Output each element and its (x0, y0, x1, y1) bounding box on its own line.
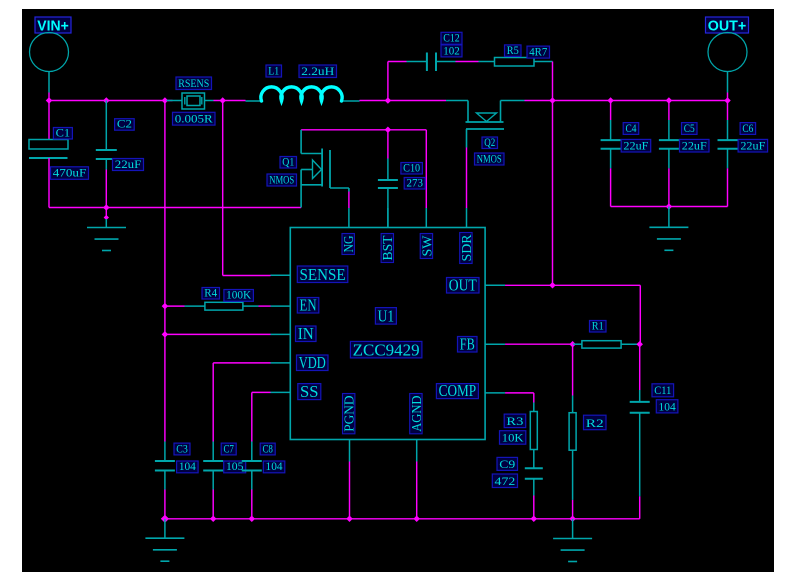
svg-text:22uF: 22uF (682, 138, 707, 152)
svg-text:C3: C3 (176, 441, 188, 455)
wire COMP pin row (505, 393, 534, 403)
ground GND1 (87, 219, 126, 251)
pin VDD (271, 353, 329, 372)
svg-text:L1: L1 (268, 63, 279, 77)
label Q1 (280, 154, 297, 168)
wire VIN feed down to R4/IN/C3 (164, 101, 166, 442)
svg-text:C7: C7 (223, 441, 234, 455)
label 104 C11 (656, 399, 678, 413)
wire snubber down to rail (552, 62, 554, 101)
wire VIN rail (49, 100, 173, 102)
capacitor C7 (203, 442, 223, 490)
svg-text:102: 102 (443, 43, 460, 57)
label 4R7 (527, 45, 550, 59)
label C9 (497, 457, 518, 471)
svg-text:470uF: 470uF (53, 166, 87, 180)
wire SS pin to C8 (252, 392, 271, 441)
wire input ground row (49, 207, 301, 209)
svg-text:NMOS: NMOS (477, 151, 502, 165)
node ground-rail C7 junction (210, 516, 217, 523)
label NMOS Q1 (267, 172, 297, 186)
label 104 C3 (177, 459, 199, 473)
svg-text:273: 273 (406, 175, 423, 189)
wire C8 to ground rail (251, 490, 253, 519)
svg-text:2.2uH: 2.2uH (301, 64, 334, 78)
label C7 (221, 441, 236, 455)
capacitor C10 (378, 130, 398, 228)
wire C7 to ground rail (212, 490, 214, 519)
svg-text:FB: FB (460, 334, 475, 353)
wire Q1 gate to NG pin (348, 192, 350, 209)
svg-text:R5: R5 (507, 43, 519, 57)
wire C12 to R5 (456, 61, 479, 63)
wire L1 to Q2 (SW rail) (360, 100, 447, 102)
wire FB pin to R1 (505, 343, 572, 345)
op-amp U1 ZCC9429 body (290, 228, 485, 440)
svg-text:105: 105 (226, 459, 244, 473)
label NMOS Q2 (475, 151, 505, 165)
svg-text:C6: C6 (742, 121, 753, 135)
label 22uF C4 (621, 138, 651, 152)
port OUT+ (706, 17, 749, 93)
svg-text:10K: 10K (502, 431, 524, 445)
wire rail down to OUT pin row (552, 101, 554, 286)
wire C3 to ground rail (164, 490, 166, 519)
svg-text:SS: SS (300, 382, 319, 401)
label R1 (590, 318, 607, 332)
capacitor C5 (659, 101, 679, 207)
capacitor C6 (718, 101, 738, 207)
label 273 (404, 175, 425, 189)
svg-text:IN: IN (298, 324, 314, 343)
node ground-rail C3 junction (161, 515, 169, 523)
wire to ground 1 (105, 208, 107, 220)
svg-text:C4: C4 (625, 121, 636, 135)
capacitor C9 (525, 468, 543, 495)
svg-text:NG: NG (342, 236, 357, 253)
label R2 (584, 415, 607, 430)
label C6 (740, 121, 756, 135)
pin SDR (460, 208, 475, 264)
svg-text:R4: R4 (204, 285, 217, 299)
svg-text:104: 104 (179, 459, 196, 473)
port VIN+ (30, 17, 72, 93)
label C12 (441, 31, 462, 45)
node ground-rail C9 junction (531, 516, 538, 523)
wire R2 to ground rail (572, 500, 574, 519)
label C4 (623, 121, 639, 135)
svg-text:U1: U1 (378, 307, 395, 326)
label ZCC9429 (350, 340, 422, 359)
svg-text:OUT: OUT (449, 275, 477, 294)
node IN junction (162, 331, 169, 338)
capacitor C11 (630, 390, 650, 496)
label C10 (401, 160, 423, 174)
label R3 (504, 414, 526, 428)
ground GND4 (553, 519, 592, 562)
svg-text:0.005R: 0.005R (175, 112, 213, 126)
svg-text:104: 104 (266, 459, 283, 473)
wire PGND pin down (349, 462, 351, 519)
node output-ground junction (666, 203, 673, 210)
node SW rail junction (385, 97, 392, 104)
svg-text:100K: 100K (226, 288, 251, 302)
svg-text:ZCC9429: ZCC9429 (353, 340, 420, 359)
capacitor C1 (29, 101, 68, 208)
svg-text:Q2: Q2 (484, 135, 495, 149)
svg-text:COMP: COMP (439, 381, 477, 400)
svg-text:Q1: Q1 (282, 154, 294, 168)
wire RSENS-right to SENSE pin (223, 101, 271, 276)
svg-text:SDR: SDR (460, 234, 475, 262)
label 22uF C5 (680, 138, 710, 152)
node FB junction (569, 341, 576, 348)
transistor Q2 (446, 101, 525, 148)
wire VIN to IN pin (165, 333, 271, 335)
svg-text:EN: EN (300, 295, 317, 314)
svg-text:NMOS: NMOS (269, 172, 294, 186)
svg-text:PGND: PGND (343, 396, 358, 432)
node R1-right junction (636, 341, 643, 348)
svg-text:C10: C10 (403, 160, 420, 174)
svg-text:22uF: 22uF (740, 138, 765, 152)
node ground-rail PGND junction (346, 516, 353, 523)
resistor R1 (573, 341, 639, 348)
svg-text:R2: R2 (586, 416, 604, 430)
pin COMP (436, 381, 505, 400)
wire Q2 to OUT rail (525, 100, 728, 102)
node C4 junction (607, 97, 614, 104)
label C8 (260, 441, 275, 455)
pin OUT (447, 275, 506, 294)
wire SW row to SW pin (388, 130, 426, 208)
label RSENS (176, 76, 212, 90)
wire output ground row (611, 206, 728, 208)
wire R1 down to C11 (639, 344, 641, 390)
label C5 (682, 121, 698, 135)
label 10K (500, 431, 526, 445)
label R5 (505, 43, 522, 57)
wire C9 to ground rail (533, 496, 535, 519)
wire C11 to ground rail (639, 496, 641, 519)
resistor R4 (185, 302, 259, 310)
label C11 (652, 383, 674, 397)
svg-text:472: 472 (495, 474, 516, 488)
pin SW (420, 208, 435, 259)
capacitor C8 (242, 442, 262, 490)
label 2.2uH (299, 64, 337, 78)
pin SENSE (271, 265, 348, 284)
svg-text:4R7: 4R7 (529, 45, 547, 59)
svg-text:R1: R1 (592, 318, 604, 332)
label Q2 (482, 135, 498, 149)
transistor Q1 (301, 130, 349, 208)
label 100K (224, 288, 254, 302)
svg-text:SW: SW (420, 235, 435, 257)
ground GND2 (649, 207, 688, 251)
label 0.005R (173, 112, 216, 126)
node RSENS-right junction (219, 97, 226, 104)
svg-text:22uF: 22uF (115, 157, 142, 171)
resistor R5 (479, 58, 553, 67)
node VIN/C1 junction (46, 97, 53, 104)
wire Q2 gate to SDR pin (466, 148, 468, 209)
pin PGND (343, 394, 358, 462)
ground GND3 (145, 519, 184, 561)
pin EN (271, 295, 319, 314)
pin SS (271, 382, 321, 401)
svg-text:R3: R3 (506, 414, 523, 428)
wire AGND pin down (416, 462, 418, 519)
label U1 (375, 307, 396, 326)
pin FB (458, 334, 506, 353)
node R4 junction (162, 303, 169, 310)
svg-text:AGND: AGND (410, 396, 425, 432)
label L1 (266, 63, 282, 77)
resistor R3 (530, 403, 537, 469)
wire SW row to Q1 drain (301, 129, 388, 131)
label C3 (174, 441, 190, 455)
node snubber-right junction (549, 97, 556, 104)
node ground-rail C8 junction (249, 516, 256, 523)
pin AGND (410, 394, 425, 462)
wire VDD pin to C7 (213, 363, 270, 442)
svg-text:C2: C2 (117, 117, 132, 131)
node ground tap (104, 215, 109, 220)
node Q1-drain/C10/SW junction (385, 127, 392, 134)
svg-text:SENSE: SENSE (300, 265, 346, 284)
label 22uF C2 (113, 157, 144, 171)
wire R4 to EN pin (259, 305, 271, 307)
label 22uF C6 (738, 138, 768, 152)
node C2 junction (103, 97, 110, 104)
resistor R2 (569, 344, 576, 500)
capacitor C3 (155, 442, 175, 490)
inductor L1 (246, 87, 360, 101)
node C2-bottom junction (103, 204, 110, 211)
svg-text:22uF: 22uF (623, 138, 648, 152)
wire OUT row down to R1 (639, 285, 641, 344)
node ground-rail R2 junction (569, 516, 576, 523)
label 102 (441, 43, 462, 57)
node C6/OUT junction (724, 97, 731, 104)
capacitor C4 (601, 101, 621, 207)
svg-text:104: 104 (659, 399, 676, 413)
node C5 junction (666, 97, 673, 104)
svg-text:VIN+: VIN+ (37, 18, 69, 34)
label R4 (202, 285, 220, 299)
svg-text:C8: C8 (262, 441, 273, 455)
pin NG (342, 208, 357, 255)
label 105 (224, 459, 246, 473)
node OUT junction (549, 282, 556, 289)
svg-text:C1: C1 (56, 125, 71, 139)
label 472 (492, 474, 517, 488)
wire RSENS to L1 (214, 100, 246, 102)
wire OUT pin row (505, 284, 640, 286)
capacitor C12 (407, 53, 456, 72)
svg-text:C9: C9 (499, 457, 515, 471)
wire VIN+ to input rail (48, 93, 50, 101)
node ground-rail AGND junction (413, 516, 420, 523)
svg-text:C5: C5 (684, 121, 695, 135)
label C1 (53, 125, 72, 139)
label C2 (115, 117, 135, 131)
node RSENS-left junction (162, 97, 169, 104)
wire bottom ground rail (165, 518, 640, 520)
wire SW rail up to snubber (388, 62, 407, 101)
wire OUT+ to output rail (727, 93, 729, 101)
svg-text:RSENS: RSENS (178, 76, 209, 90)
pin IN (271, 324, 317, 343)
svg-text:VDD: VDD (299, 353, 326, 372)
wire VIN to R4 (165, 305, 185, 307)
label 470uF (51, 166, 89, 180)
capacitor C2 (96, 101, 117, 208)
resistor RSENS (167, 93, 214, 109)
svg-text:BST: BST (381, 235, 396, 260)
svg-text:C11: C11 (654, 383, 671, 397)
label 104 C8 (263, 459, 285, 473)
pin BST (381, 208, 396, 263)
